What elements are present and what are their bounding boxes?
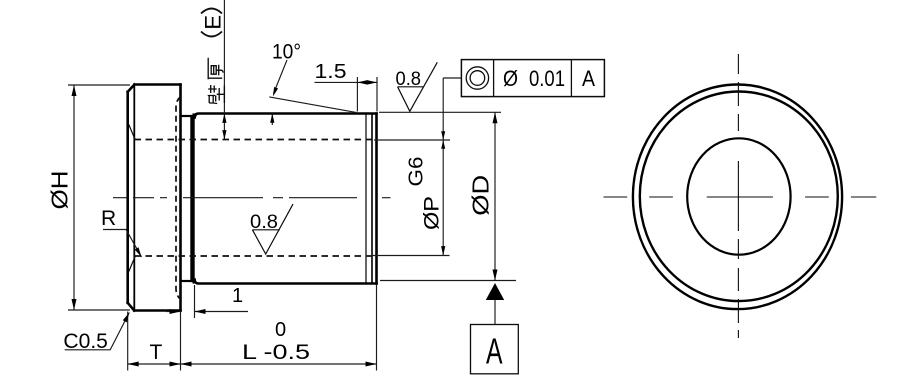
roughness symbol top right: [398, 62, 438, 111]
wall thickness leader line: [223, 0, 225, 140]
body top edge with left fillet: [195, 114, 377, 118]
right view centerlines: [604, 54, 877, 338]
frame leader: [443, 77, 461, 79]
svg-text:L -0.5: L -0.5: [242, 341, 310, 364]
bore hidden line bottom: [135, 255, 374, 257]
fullwidth paren top of (E): [201, 9, 222, 37]
T arrows outward: [128, 362, 139, 367]
svg-text:E: E: [201, 15, 226, 30]
svg-text:G6: G6: [406, 157, 428, 187]
body inner right line 2: [365, 114, 367, 284]
flange bottom-left chamfer: [128, 303, 135, 311]
neck top edge: [181, 115, 192, 117]
svg-text:C0.5: C0.5: [63, 330, 108, 353]
R arrow: [135, 247, 144, 258]
datum box: [471, 325, 519, 374]
dim 1.5 extension lines: [357, 77, 377, 112]
svg-text:ØP: ØP: [421, 196, 444, 230]
shared extension below flange face: [180, 312, 182, 371]
C0.5 arrow: [123, 311, 132, 322]
svg-text:1: 1: [232, 285, 243, 307]
phi-D extension bottom: [380, 280, 516, 282]
body bottom edge with left fillet: [195, 280, 377, 284]
dim phi-H extension lines: [68, 85, 130, 310]
flange left edge: [126, 92, 129, 303]
outer flange circle: [633, 85, 842, 310]
flange right edge: [179, 85, 182, 311]
dim 1 line right part: [195, 311, 249, 313]
dim T extension line left: [127, 312, 129, 371]
C0.5 leader: [65, 313, 130, 350]
10deg taper line: [269, 97, 357, 113]
1.5 arrows: [357, 80, 367, 85]
svg-text:A: A: [582, 66, 595, 91]
svg-text:R: R: [101, 207, 116, 230]
L arrows outward: [181, 362, 192, 367]
funnel chamfer top: [129, 125, 136, 141]
roughness symbol on bore: [252, 204, 293, 254]
wall thickness kanji BI (wall), rotated: [208, 85, 225, 104]
axis centerline: [113, 197, 391, 199]
dim 1 arrows: [170, 309, 181, 314]
svg-text:Ø: Ø: [503, 66, 518, 91]
phi-P arrows: [441, 140, 445, 149]
body inner right line 1: [371, 114, 373, 284]
neck bottom edge: [181, 280, 192, 282]
phi-P dimension line: [442, 78, 444, 256]
svg-text:10°: 10°: [272, 41, 301, 64]
datum stem: [494, 300, 496, 325]
wall thickness arrows: [222, 114, 226, 123]
horizontal centerline: [604, 196, 877, 198]
dim 1 extension: [194, 285, 196, 318]
10deg arrows: [271, 87, 278, 97]
flange bottom edge: [134, 309, 180, 312]
svg-text:0.8: 0.8: [396, 69, 422, 90]
dim 1.5 line: [315, 81, 378, 83]
body circle: [640, 92, 838, 302]
datum filled triangle: [486, 283, 504, 300]
svg-text:0: 0: [275, 319, 286, 341]
dim phi-H line: [73, 85, 75, 310]
R leader: [103, 230, 142, 258]
phi-H arrows: [72, 85, 77, 96]
flange top edge: [135, 83, 181, 86]
phi-D extension top: [379, 111, 501, 113]
10deg lower arrow tail: [271, 113, 273, 125]
hidden counterbore in flange: [176, 97, 181, 299]
bore circle: [687, 138, 790, 254]
svg-text:A: A: [486, 331, 503, 372]
dim 1 line left part: [166, 311, 181, 313]
neck vertical line: [190, 116, 192, 281]
vertical centerline: [737, 54, 739, 338]
wall thickness kanji ATSU (thickness), rotated: [208, 58, 223, 80]
body left lip vertical: [193, 115, 195, 283]
flange top-left chamfer: [128, 85, 135, 92]
phi-D dimension line: [494, 112, 496, 281]
bore hidden line top: [135, 139, 374, 141]
phi-P extension top: [374, 139, 450, 141]
phi-P extension bottom: [371, 255, 450, 257]
concentricity symbol: [466, 67, 488, 89]
feature control frame box: [461, 60, 604, 97]
dim T/L line: [128, 363, 377, 365]
arrows: [72, 80, 505, 366]
frame leader arrow down: [441, 131, 445, 140]
funnel chamfer bottom: [129, 256, 136, 272]
flange chamfer depth line: [133, 85, 135, 311]
svg-text:ØH: ØH: [47, 171, 73, 210]
dim L extension right: [376, 285, 378, 371]
body right end face: [375, 114, 378, 284]
svg-text:1.5: 1.5: [315, 61, 347, 83]
10deg leader: [274, 60, 288, 94]
svg-text:0.8: 0.8: [250, 212, 278, 233]
svg-text:0.01: 0.01: [529, 66, 565, 91]
phi-D arrows: [493, 112, 498, 123]
svg-text:T: T: [150, 341, 163, 364]
svg-text:ØD: ØD: [468, 175, 494, 216]
